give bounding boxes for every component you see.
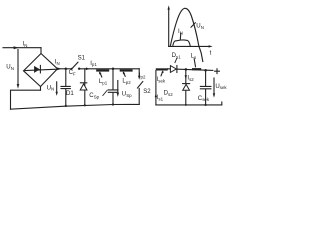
diode Ds1 triangle bbox=[170, 66, 176, 73]
leader arrowhead Isek bbox=[162, 71, 164, 73]
svg-text:S1: S1 bbox=[78, 55, 86, 62]
bridge bottom stub bbox=[40, 87, 42, 91]
node S1 left contact bbox=[71, 68, 73, 70]
svg-text:CF: CF bbox=[69, 69, 76, 76]
label leader Ls bbox=[194, 59, 195, 67]
arrowhead USp down bbox=[117, 93, 119, 97]
capacitor CF branch bbox=[61, 69, 70, 106]
arrowhead Ip1 bbox=[86, 67, 90, 70]
svg-text:CSp: CSp bbox=[89, 92, 99, 99]
svg-text:Is2: Is2 bbox=[187, 75, 194, 82]
node CF bottom bbox=[65, 105, 67, 107]
svg-text:UN: UN bbox=[196, 23, 204, 30]
plus terminal bbox=[215, 69, 220, 74]
graph label leader IN bbox=[179, 34, 182, 40]
arrowhead IN after bridge bbox=[57, 67, 61, 70]
svg-text:USp: USp bbox=[122, 90, 132, 97]
voltage arrow UN rectified bbox=[56, 82, 58, 92]
graph curve IN bbox=[173, 40, 191, 46]
graph curve UN bbox=[170, 8, 203, 61]
arrowhead UN down bbox=[17, 84, 20, 89]
svg-text:Ds1: Ds1 bbox=[172, 52, 182, 59]
svg-text:Ip2: Ip2 bbox=[139, 72, 146, 79]
svg-text:Isek: Isek bbox=[157, 76, 166, 83]
diode D1 branch bbox=[84, 69, 86, 106]
switch S2 branch lower bbox=[138, 89, 140, 105]
diode D1 triangle bbox=[80, 84, 87, 90]
diode Ds2 branch bbox=[185, 69, 187, 105]
node D1 bottom bbox=[84, 104, 86, 106]
diode Ds2 cathode bar bbox=[183, 83, 190, 85]
diode Ds1 cathode bar bbox=[176, 66, 178, 73]
secondary return wire bbox=[155, 71, 157, 105]
svg-text:Usek: Usek bbox=[215, 83, 227, 90]
wire input top bbox=[3, 47, 41, 49]
node CF top bbox=[65, 68, 68, 71]
node Csek bottom bbox=[205, 104, 207, 106]
node Ds2 top bbox=[185, 68, 188, 71]
winding Lp2 bar bbox=[120, 69, 133, 71]
svg-text:IN: IN bbox=[23, 41, 28, 48]
label leader Isek bbox=[161, 71, 163, 76]
node S1 right contact bbox=[78, 68, 80, 70]
node CSp top bbox=[112, 68, 115, 71]
winding Ls bar bbox=[192, 68, 201, 70]
wire input top drop to bridge bbox=[40, 48, 42, 54]
svg-text:Is1: Is1 bbox=[157, 94, 164, 101]
svg-text:Lp2: Lp2 bbox=[122, 78, 131, 85]
voltage arrow UN mains bbox=[17, 50, 19, 84]
winding Lp1 bar bbox=[96, 69, 109, 71]
node Ds2 bottom bbox=[185, 104, 187, 106]
svg-text:D1: D1 bbox=[66, 90, 74, 97]
winding secondary bar bbox=[156, 68, 168, 70]
label leader Lp1 bbox=[100, 72, 102, 77]
leader arrowhead Lp2 bbox=[123, 72, 125, 75]
svg-text:Ls: Ls bbox=[191, 52, 197, 59]
node Csek top bbox=[204, 69, 207, 72]
label leader CSp bbox=[103, 90, 107, 95]
bridge rectifier diamond bbox=[24, 54, 58, 87]
arrowhead Usek down bbox=[213, 93, 215, 97]
diode D1 cathode bar bbox=[80, 82, 86, 84]
svg-text:IN: IN bbox=[178, 28, 183, 35]
svg-text:Ds2: Ds2 bbox=[164, 90, 174, 97]
bottom rail primary bbox=[11, 104, 140, 109]
label leader Lp2 bbox=[124, 72, 126, 76]
arrowhead graph y bbox=[168, 5, 170, 9]
svg-text:UN: UN bbox=[47, 84, 55, 91]
svg-text:t: t bbox=[210, 50, 212, 57]
minus terminal tick bbox=[221, 102, 223, 105]
svg-text:UN: UN bbox=[6, 64, 14, 71]
capacitor Csek branch bbox=[200, 70, 211, 105]
graph label leader UN bbox=[191, 23, 195, 27]
node CSp bottom bbox=[112, 103, 114, 105]
switch S2 arm bbox=[138, 82, 143, 89]
arrowhead Is2 down bbox=[185, 75, 187, 79]
diode Ds2 triangle bbox=[183, 84, 190, 90]
svg-text:Lp1: Lp1 bbox=[99, 78, 108, 85]
svg-text:Ip1: Ip1 bbox=[90, 60, 97, 67]
arrowhead Ip2 down bbox=[138, 76, 140, 80]
voltage arrow Usek bbox=[213, 78, 215, 94]
bottom rail secondary bbox=[156, 104, 222, 106]
graph y-axis bbox=[168, 9, 170, 46]
graph x-axis bbox=[169, 45, 209, 47]
svg-text:IN: IN bbox=[55, 58, 60, 65]
wire top rail left of S1 bbox=[58, 68, 72, 70]
svg-text:S2: S2 bbox=[143, 88, 151, 95]
arrowhead graph x bbox=[209, 45, 213, 47]
capacitor CSp branch bbox=[108, 69, 118, 105]
arrowhead IN input bbox=[14, 46, 19, 49]
wire input bottom bbox=[11, 90, 41, 109]
voltage arrow USp bbox=[117, 81, 119, 93]
bridge inner diode wire bbox=[25, 69, 57, 70]
wire top rail S1 to S2 bbox=[79, 68, 140, 70]
svg-text:Csek: Csek bbox=[198, 95, 210, 102]
bridge inner diode cathode bar bbox=[39, 65, 41, 73]
switch S2 branch upper bbox=[138, 69, 140, 76]
bridge inner diode triangle bbox=[34, 66, 40, 73]
label leader Ds1 bbox=[175, 58, 177, 62]
arrowhead UN rectified down bbox=[56, 92, 58, 96]
arrowhead Is1 up bbox=[155, 93, 157, 97]
secondary top wire bbox=[168, 69, 213, 71]
leader arrowhead Lp1 bbox=[99, 72, 102, 75]
switch S1 arm bbox=[72, 62, 78, 69]
